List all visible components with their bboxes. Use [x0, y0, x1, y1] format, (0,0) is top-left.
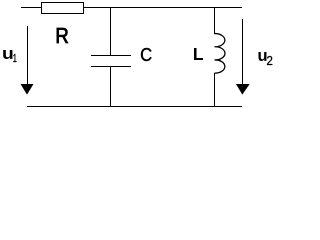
value label R	[57, 28, 68, 43]
node u2 label	[259, 52, 273, 65]
value label C	[141, 48, 152, 61]
wire: top rail from input to right end	[21, 7, 242, 8]
wire: inductor branch upper segment	[214, 8, 215, 34]
node u1 label	[3, 50, 16, 62]
value label L	[194, 48, 203, 60]
wire: capacitor branch upper segment	[110, 8, 111, 55]
node u2 voltage arrow (head)	[236, 84, 250, 95]
inductor L (coil)	[215, 34, 225, 74]
capacitor C (plates)	[91, 55, 131, 67]
node u1 voltage arrow (head)	[21, 84, 34, 95]
wire: inductor branch lower segment	[214, 73, 215, 106]
wire: capacitor branch lower segment	[110, 67, 111, 106]
node u1 voltage arrow (shaft)	[27, 26, 28, 84]
wire: bottom rail	[27, 106, 242, 107]
resistor R (box symbol)	[41, 2, 84, 14]
node u2 voltage arrow (shaft)	[242, 19, 243, 84]
